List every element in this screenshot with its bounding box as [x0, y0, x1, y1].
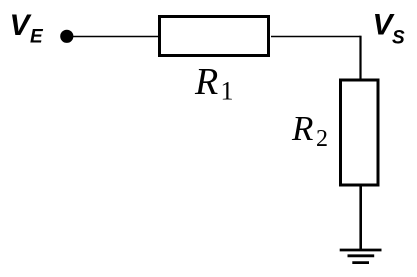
resistor R2 value label: [291, 109, 328, 152]
node VE terminal dot: [60, 30, 73, 43]
node VS label: [373, 9, 406, 49]
svg-text:R: R: [194, 61, 218, 103]
wire from R1 right to VS corner: [271, 36, 361, 38]
svg-text:1: 1: [221, 77, 234, 106]
wire from VS corner down to R2 top: [359, 36, 361, 80]
wire from VE node to R1 left: [67, 36, 160, 38]
wire from R2 bottom to ground: [359, 185, 362, 249]
resistor R1 body: [160, 17, 269, 56]
svg-text:E: E: [30, 27, 44, 48]
svg-text:R: R: [291, 109, 313, 148]
node VE label: [10, 9, 45, 48]
svg-text:S: S: [392, 28, 405, 49]
ground symbol: [340, 250, 382, 263]
resistor R2 body: [341, 80, 379, 185]
svg-text:2: 2: [316, 126, 328, 152]
resistor R1 value label: [194, 61, 234, 106]
